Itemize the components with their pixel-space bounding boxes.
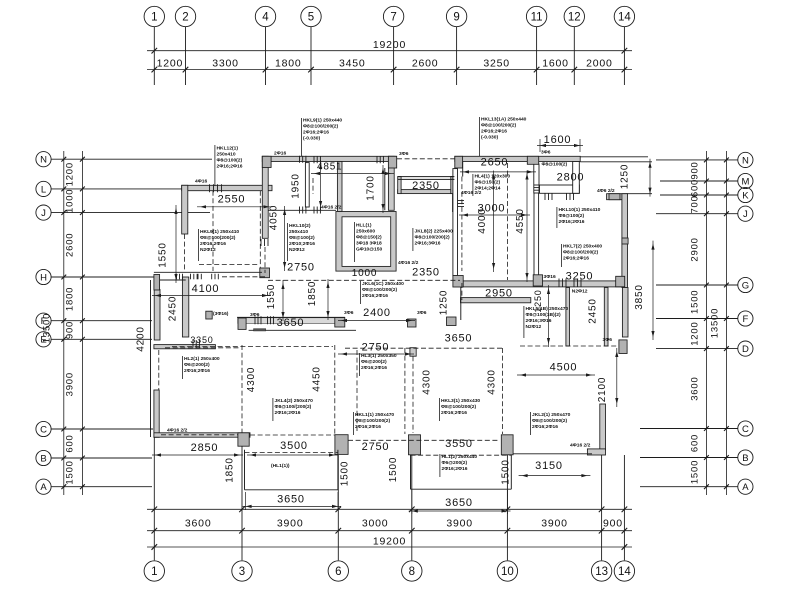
svg-text:K: K xyxy=(742,190,749,201)
grid line E (left) xyxy=(51,338,152,340)
column top C xyxy=(455,156,463,168)
svg-text:14: 14 xyxy=(618,566,631,578)
grid line 10 (bottom) xyxy=(506,455,508,560)
svg-text:G: G xyxy=(742,280,749,291)
right dimension lines xyxy=(705,151,707,495)
svg-text:N2Φ12: N2Φ12 xyxy=(526,324,542,330)
svg-text:4000: 4000 xyxy=(477,208,488,233)
svg-text:4450: 4450 xyxy=(312,366,323,391)
column right-mid xyxy=(533,275,542,286)
svg-text:600: 600 xyxy=(690,434,701,452)
grid line 14 (bottom) xyxy=(623,455,625,560)
svg-text:19200: 19200 xyxy=(373,535,406,547)
svg-text:1550: 1550 xyxy=(158,242,169,267)
axis bubble 13 (bottom) xyxy=(591,561,611,581)
svg-text:1500: 1500 xyxy=(388,457,399,482)
wall top band B xyxy=(455,156,580,161)
svg-text:3900: 3900 xyxy=(277,518,304,530)
dim 4500 line xyxy=(517,374,595,376)
dim 4050 line xyxy=(284,206,286,271)
wall right room thin left xyxy=(566,288,570,347)
svg-text:3Φ6: 3Φ6 xyxy=(541,150,551,156)
svg-text:N2Φ12: N2Φ12 xyxy=(200,247,216,253)
svg-text:A: A xyxy=(40,482,47,493)
axis bubble 3 (bottom) xyxy=(232,561,252,581)
svg-text:8: 8 xyxy=(409,566,415,578)
svg-text:Φ6@200(2): Φ6@200(2) xyxy=(184,362,210,368)
svg-text:HKL12(1): HKL12(1) xyxy=(217,146,239,152)
svg-text:2Φ16;2Φ16: 2Φ16;2Φ16 xyxy=(441,410,467,416)
svg-text:700: 700 xyxy=(690,195,701,213)
opening ticks mid wall b xyxy=(267,316,269,324)
svg-text:1800: 1800 xyxy=(65,287,76,311)
wall left boundary upper xyxy=(154,290,160,341)
svg-text:4: 4 xyxy=(262,12,269,24)
svg-text:3900: 3900 xyxy=(65,372,76,396)
svg-text:2750: 2750 xyxy=(362,342,390,354)
column top D xyxy=(527,156,538,164)
grid line M (right) xyxy=(660,180,738,182)
svg-text:4300: 4300 xyxy=(422,369,433,394)
svg-text:2: 2 xyxy=(182,12,188,24)
svg-text:600: 600 xyxy=(690,179,701,197)
grid line C (left) xyxy=(51,428,153,430)
svg-text:2Φ10;2Φ16: 2Φ10;2Φ16 xyxy=(289,241,315,247)
dim 3150 line xyxy=(519,475,591,477)
svg-text:HKL10(1) 250x410: HKL10(1) 250x410 xyxy=(559,207,601,213)
grid line A (left) xyxy=(51,486,152,488)
beam label HKL12(1) xyxy=(214,145,216,186)
opening ticks shaft right xyxy=(458,200,465,202)
beam left room vertical xyxy=(241,345,243,433)
beam label HKL3(1) xyxy=(438,398,440,421)
svg-text:HL1(2) 250x440: HL1(2) 250x440 xyxy=(442,454,478,460)
wall right-mid band xyxy=(461,281,622,287)
svg-text:HKL9(1) 250x410: HKL9(1) 250x410 xyxy=(200,229,239,235)
beam long mid horizontal xyxy=(268,279,460,281)
opening ticks 4851 a xyxy=(299,156,301,163)
grid line 5 (top) xyxy=(310,27,312,85)
beam label HL3(1) xyxy=(358,353,360,376)
svg-text:3Φ16: 3Φ16 xyxy=(544,274,556,280)
column bottom-left xyxy=(238,433,249,446)
svg-text:Φ8@100(1B)(2): Φ8@100(1B)(2) xyxy=(526,312,562,318)
svg-text:2350: 2350 xyxy=(412,180,440,192)
wall room2800 bottom (white) xyxy=(540,185,580,193)
svg-text:900: 900 xyxy=(690,161,701,179)
svg-text:2Φ16;2Φ16: 2Φ16;2Φ16 xyxy=(532,424,558,430)
grid line 7 (top) xyxy=(393,27,395,85)
corridor left inner face xyxy=(384,168,386,210)
svg-text:4Φ16 2/2: 4Φ16 2/2 xyxy=(570,443,591,449)
beam under 3350 wall xyxy=(172,346,333,348)
svg-text:13500: 13500 xyxy=(42,313,53,343)
svg-text:1000: 1000 xyxy=(65,189,76,213)
svg-text:(-0.030): (-0.030) xyxy=(481,135,498,141)
svg-text:2Φ16;2Φ16: 2Φ16;2Φ16 xyxy=(559,219,585,225)
beam right rooms xyxy=(520,345,618,347)
wall bottom-right corner xyxy=(587,449,605,455)
axis bubble A (left) xyxy=(36,479,51,494)
axis bubble 11 (top) xyxy=(526,6,546,26)
svg-text:2Φ16;2Φ16: 2Φ16;2Φ16 xyxy=(303,130,329,136)
mid wall grey underlay xyxy=(238,318,340,324)
svg-text:1500: 1500 xyxy=(65,460,76,484)
svg-text:N: N xyxy=(40,155,47,166)
column bottom 8 xyxy=(409,435,421,455)
grid line K (right) xyxy=(660,194,738,196)
svg-text:900: 900 xyxy=(603,518,623,530)
wall left boundary lower xyxy=(154,390,159,437)
column mid-wall b xyxy=(408,319,417,327)
column bottom 6 xyxy=(335,435,348,455)
svg-text:N2Φ12: N2Φ12 xyxy=(572,289,588,295)
dim 3650R line xyxy=(409,510,511,512)
grid line B (right) xyxy=(640,457,738,459)
axis bubble D (right) xyxy=(738,341,753,356)
axis bubble A (right) xyxy=(738,479,753,494)
grid line 1 (bottom) xyxy=(153,438,155,561)
beam label JKL4(2) xyxy=(272,398,274,421)
wall line right of corridor end xyxy=(452,194,454,212)
opening ticks right-mid a xyxy=(558,279,560,287)
beam label JKL8(2) xyxy=(412,228,414,251)
svg-text:1250: 1250 xyxy=(439,290,450,315)
beam over corridor xyxy=(397,158,455,160)
svg-text:GΦ10@150: GΦ10@150 xyxy=(356,247,382,253)
axis bubble J (left) xyxy=(36,205,51,220)
dim 1600 line xyxy=(537,145,583,147)
svg-text:Φ8@100(2): Φ8@100(2) xyxy=(289,235,315,241)
beam label JKL2(1) xyxy=(529,412,531,435)
dim 3850 line xyxy=(652,241,654,340)
svg-text:4Φ16 2/2: 4Φ16 2/2 xyxy=(167,428,188,434)
grid line H (left) xyxy=(51,276,155,278)
svg-text:3900: 3900 xyxy=(446,518,473,530)
svg-text:3600: 3600 xyxy=(185,518,212,530)
svg-text:9: 9 xyxy=(453,12,459,24)
svg-text:2Φ16;2Φ16: 2Φ16;2Φ16 xyxy=(442,466,468,472)
svg-text:3850: 3850 xyxy=(634,284,645,309)
svg-text:L: L xyxy=(41,184,46,195)
opening ticks 4851 b xyxy=(313,156,315,163)
axis bubble B (left) xyxy=(36,450,51,465)
svg-text:3500: 3500 xyxy=(280,440,308,452)
svg-text:Φ8@100(2): Φ8@100(2) xyxy=(542,162,568,168)
svg-text:JKL4(2) 250x470: JKL4(2) 250x470 xyxy=(275,398,314,404)
svg-text:Φ8@100(2): Φ8@100(2) xyxy=(559,213,585,219)
svg-text:3000: 3000 xyxy=(362,518,389,530)
svg-text:2Φ16: 2Φ16 xyxy=(274,151,286,157)
wall shaft-left vertical xyxy=(337,162,342,212)
beam room2750 right xyxy=(404,348,406,434)
axis bubble E (left) xyxy=(36,332,51,347)
grid line 4 (top) xyxy=(265,27,267,85)
grid line F (left) xyxy=(51,320,152,322)
axis bubble 4 (top) xyxy=(255,6,275,26)
svg-text:2750: 2750 xyxy=(362,441,390,453)
svg-text:1500: 1500 xyxy=(501,459,512,484)
corridor top edge lines xyxy=(398,176,455,178)
dim 2400 line xyxy=(338,320,415,322)
opening ticks right-mid b xyxy=(573,279,575,287)
svg-text:F: F xyxy=(742,314,748,325)
svg-text:13500: 13500 xyxy=(710,308,721,338)
grid line D (right) xyxy=(656,348,738,350)
svg-text:600: 600 xyxy=(65,434,76,452)
opening ticks wall V2 bottom xyxy=(260,239,262,246)
svg-text:4500: 4500 xyxy=(550,362,578,374)
svg-text:Φ6@150(2): Φ6@150(2) xyxy=(475,180,501,186)
dim 1550 line xyxy=(175,205,177,283)
wall room2800 right (white) xyxy=(573,162,580,194)
svg-text:1850: 1850 xyxy=(225,457,236,482)
svg-text:19200: 19200 xyxy=(373,39,406,51)
dim 1700 line xyxy=(382,165,384,213)
svg-text:2100: 2100 xyxy=(597,377,608,402)
bottom dimension line segments xyxy=(147,508,632,510)
opening ticks H9 end b xyxy=(190,274,192,280)
beam room3550 right xyxy=(502,348,504,434)
svg-text:2000: 2000 xyxy=(586,57,613,69)
svg-text:3Φ6: 3Φ6 xyxy=(603,337,613,343)
left dimension lines xyxy=(63,151,65,495)
svg-text:1: 1 xyxy=(151,566,157,578)
H-line wall top edge xyxy=(154,271,262,273)
room 2650 left face xyxy=(462,162,464,177)
grid line F (right) xyxy=(656,318,738,320)
axis bubble M (right) xyxy=(738,173,753,188)
top right boundary line xyxy=(580,161,652,163)
svg-text:C: C xyxy=(40,424,47,435)
dim 3500 line xyxy=(247,454,338,456)
svg-text:2800: 2800 xyxy=(557,172,585,184)
svg-text:3Φ6: 3Φ6 xyxy=(250,312,260,318)
wall room2800 left (white) xyxy=(534,164,539,193)
svg-text:Φ6@200(2): Φ6@200(2) xyxy=(361,359,387,365)
svg-text:1200: 1200 xyxy=(65,162,76,186)
svg-text:1600: 1600 xyxy=(544,134,572,146)
axis bubble N (right) xyxy=(738,152,753,167)
svg-text:4550: 4550 xyxy=(515,208,526,233)
svg-text:900: 900 xyxy=(65,321,76,339)
grid line 3 (bottom) xyxy=(241,447,243,561)
wall left 3350 band xyxy=(154,345,216,349)
svg-text:1200: 1200 xyxy=(157,57,184,69)
svg-text:250x410: 250x410 xyxy=(217,152,236,158)
svg-text:2450: 2450 xyxy=(588,298,599,323)
grid line 11 (top) xyxy=(536,27,538,85)
svg-text:4Φ16 2/2: 4Φ16 2/2 xyxy=(398,260,419,266)
balcony right outline xyxy=(410,455,412,489)
svg-text:2900: 2900 xyxy=(690,237,701,261)
svg-text:2Φ16;2Φ16: 2Φ16;2Φ16 xyxy=(362,293,388,299)
dim 1600 extension left xyxy=(539,139,541,152)
axis bubble 14 (bottom) xyxy=(614,561,634,581)
beam label HKL10(1) xyxy=(556,207,558,228)
svg-text:1200: 1200 xyxy=(690,321,701,345)
dim 4851 line xyxy=(311,173,394,175)
svg-text:1600: 1600 xyxy=(542,57,569,69)
svg-text:(-0.030): (-0.030) xyxy=(303,136,320,142)
svg-text:3350: 3350 xyxy=(190,335,213,345)
svg-text:4200: 4200 xyxy=(136,326,147,351)
svg-text:6: 6 xyxy=(335,566,341,578)
column top A xyxy=(262,156,271,167)
opening ticks 4851 c xyxy=(299,207,301,214)
svg-text:250x600: 250x600 xyxy=(356,229,375,235)
axis bubble 8 (bottom) xyxy=(402,561,422,581)
svg-text:(HL1(1)): (HL1(1)) xyxy=(271,463,290,469)
beam label JKL6(1C) xyxy=(359,281,361,304)
dim 1550 line mid xyxy=(282,280,284,321)
svg-text:2Φ16;2Φ16: 2Φ16;2Φ16 xyxy=(184,368,210,374)
dim 1600 extension right xyxy=(579,139,581,152)
column right-mid east xyxy=(616,276,625,287)
beam label HKL5(1B) xyxy=(523,306,525,338)
dim 1950 line xyxy=(320,160,322,210)
stair shaft inner opening xyxy=(342,217,391,267)
svg-text:JKL6(1C) 250x400: JKL6(1C) 250x400 xyxy=(362,281,404,287)
svg-text:Φ8@100/200(2): Φ8@100/200(2) xyxy=(415,235,451,241)
wall bottom-right vertical xyxy=(600,404,606,450)
axis bubble L (left) xyxy=(36,181,51,196)
H-line wall lower edge xyxy=(160,279,186,281)
svg-text:M: M xyxy=(741,176,749,187)
beam room3000 mid xyxy=(507,163,509,280)
grid line 1 (top) xyxy=(153,27,155,85)
svg-text:5: 5 xyxy=(308,12,314,24)
beam living room top xyxy=(222,276,266,278)
axis bubble 12 (top) xyxy=(564,6,584,26)
axis bubble G (right) xyxy=(738,277,753,292)
axis bubble K (right) xyxy=(738,187,753,202)
wall bottom-left band xyxy=(154,433,250,437)
balcony left outline xyxy=(244,450,246,490)
grid line J (right) xyxy=(656,213,738,215)
axis bubble F (right) xyxy=(738,311,753,326)
grid line 2 (top) xyxy=(185,27,187,85)
svg-text:3650: 3650 xyxy=(277,494,305,506)
axis bubble 7 (top) xyxy=(383,6,403,26)
svg-text:1: 1 xyxy=(151,12,157,24)
svg-text:HKL5(1B) 250x470: HKL5(1B) 250x470 xyxy=(526,306,569,312)
beam left room top xyxy=(165,347,240,349)
svg-text:2600: 2600 xyxy=(412,57,439,69)
opening ticks 4851 d xyxy=(313,207,315,214)
svg-text:Φ8@100/200(2): Φ8@100/200(2) xyxy=(563,250,599,256)
beam left wall lower xyxy=(184,234,186,271)
svg-text:2Φ16;2Φ16: 2Φ16;2Φ16 xyxy=(355,424,381,430)
dim 1850 line mid xyxy=(327,279,329,320)
svg-text:3250: 3250 xyxy=(566,271,594,283)
column bottom 10 xyxy=(501,435,513,455)
grid line J (left) xyxy=(51,212,210,214)
axis bubble C (left) xyxy=(36,421,51,436)
grid line 8 (bottom) xyxy=(411,455,413,560)
room 4851 bottom edge xyxy=(268,209,336,211)
svg-text:4050: 4050 xyxy=(269,205,280,230)
svg-text:3550: 3550 xyxy=(445,438,473,450)
svg-text:Φ8@100(2): Φ8@100(2) xyxy=(217,158,243,164)
svg-text:11: 11 xyxy=(531,12,543,24)
mid wall beam mark xyxy=(254,329,266,331)
svg-text:N2Φ12: N2Φ12 xyxy=(289,247,305,253)
wall bedroom vertical xyxy=(182,277,188,337)
grid line A (right) xyxy=(640,486,738,488)
grid line N (left) xyxy=(51,158,212,160)
svg-text:HKL1(1) 250x470: HKL1(1) 250x470 xyxy=(355,412,394,418)
axis bubble 5 (top) xyxy=(301,6,321,26)
wall below C4 (white thin) xyxy=(534,167,539,281)
opening ticks H9 end d xyxy=(211,274,213,280)
svg-text:1500: 1500 xyxy=(690,460,701,484)
axis bubble 6 (bottom) xyxy=(328,561,348,581)
beam bottom rooms bottom xyxy=(348,439,500,441)
svg-text:Φ8@100/200(2): Φ8@100/200(2) xyxy=(441,404,477,410)
svg-text:3450: 3450 xyxy=(339,57,366,69)
svg-text:C: C xyxy=(742,424,749,435)
beam label HLL(1) shaft xyxy=(353,222,355,262)
svg-text:10: 10 xyxy=(501,566,514,578)
svg-text:2Φ16;2Φ16: 2Φ16;2Φ16 xyxy=(217,164,243,170)
beam label HKL1(1) xyxy=(352,412,354,435)
axis bubble 14 (top) xyxy=(614,6,634,26)
svg-text:2950: 2950 xyxy=(485,288,513,300)
svg-text:Φ8@100/200(2): Φ8@100/200(2) xyxy=(362,287,398,293)
mid wall lower line xyxy=(249,329,356,331)
svg-text:4Φ16 2/2: 4Φ16 2/2 xyxy=(321,205,342,211)
svg-text:3900: 3900 xyxy=(541,518,568,530)
opening ticks room2800 left xyxy=(534,184,539,186)
column mid G-line xyxy=(453,276,463,288)
svg-text:Φ6@200(2): Φ6@200(2) xyxy=(442,460,468,466)
beam left room left xyxy=(158,350,160,390)
svg-text:2Φ16;3Φ16: 2Φ16;3Φ16 xyxy=(526,318,552,324)
svg-text:3Φ6: 3Φ6 xyxy=(417,310,427,316)
opening ticks H9 end a xyxy=(176,274,178,280)
dim 2550 line xyxy=(197,206,273,208)
svg-text:2350: 2350 xyxy=(412,267,440,279)
svg-text:2400: 2400 xyxy=(363,307,391,319)
svg-text:Φ8@100/200(2): Φ8@100/200(2) xyxy=(355,418,391,424)
column right boundary lower xyxy=(619,340,627,354)
axis bubble 1 (bottom) xyxy=(144,561,164,581)
wall entry right vertical xyxy=(622,194,628,288)
dim 2650 line xyxy=(460,171,536,173)
beam label HKL9(1) top xyxy=(300,118,302,156)
beam top-left room xyxy=(212,191,214,271)
opening ticks top-left wall xyxy=(209,184,211,192)
beam mid vertical lower xyxy=(461,283,463,300)
svg-text:1700: 1700 xyxy=(366,175,377,200)
dim 2750 line xyxy=(338,353,414,355)
svg-text:2550: 2550 xyxy=(218,194,246,206)
dim 3650L line xyxy=(243,505,341,507)
column mid-wall left xyxy=(238,318,246,329)
svg-text:HKL9(1) 250x440: HKL9(1) 250x440 xyxy=(303,118,342,124)
svg-text:3: 3 xyxy=(239,566,245,578)
svg-text:2600: 2600 xyxy=(65,233,76,257)
entry top extension line xyxy=(627,193,652,195)
svg-text:HL2(1) 250x400: HL2(1) 250x400 xyxy=(184,356,220,362)
column living end xyxy=(260,268,270,278)
axis bubble 1 (top) xyxy=(144,6,164,26)
svg-text:2450: 2450 xyxy=(168,296,179,321)
column small living xyxy=(206,311,212,319)
svg-text:HLL(1): HLL(1) xyxy=(356,223,372,229)
svg-text:7: 7 xyxy=(390,12,396,24)
